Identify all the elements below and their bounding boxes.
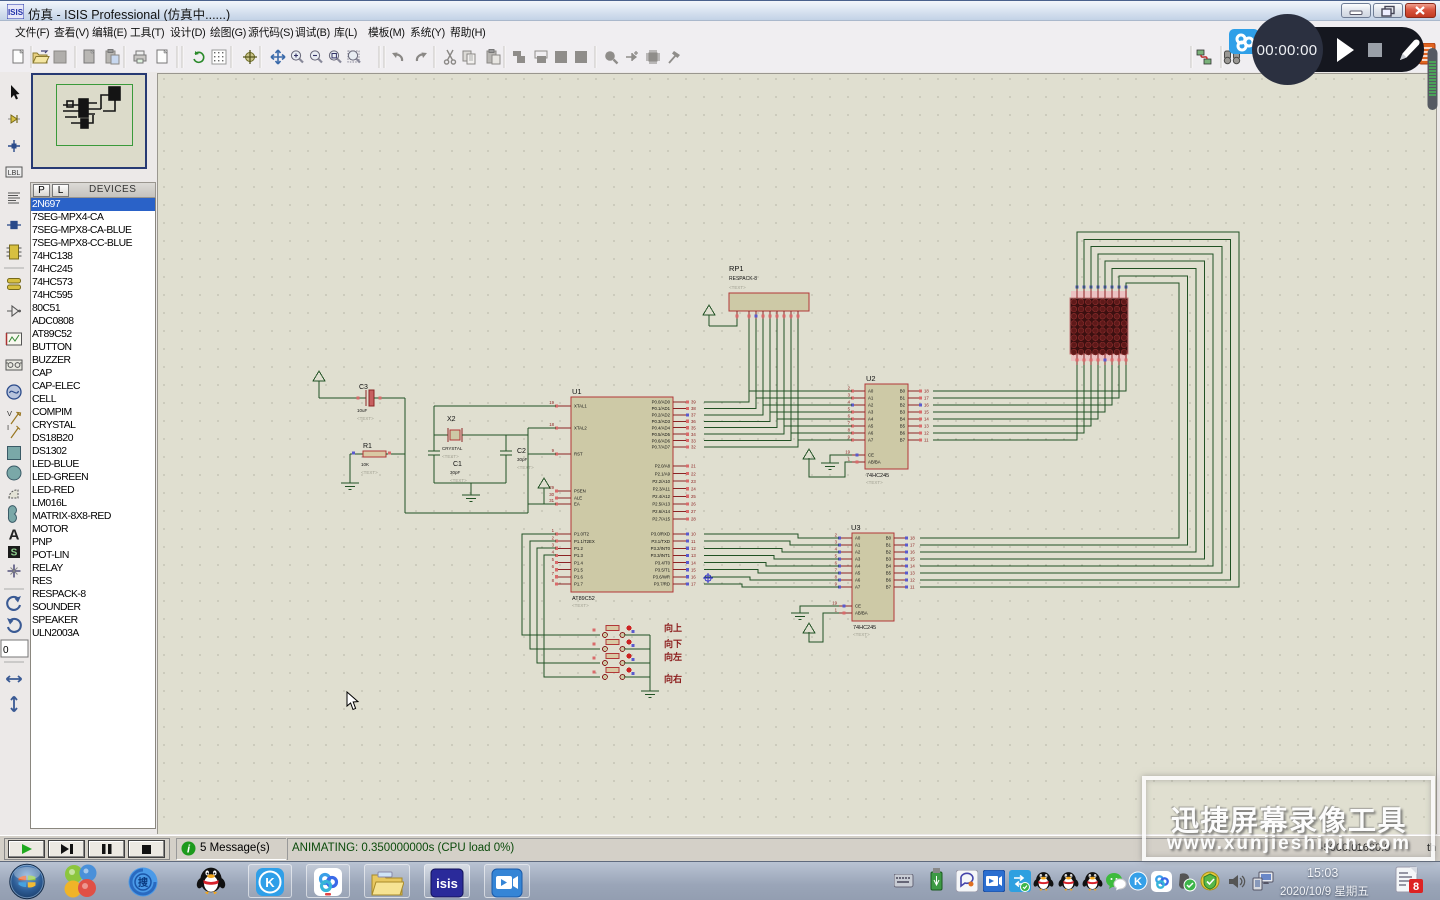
svg-text:P3.6/WR: P3.6/WR bbox=[653, 575, 670, 580]
svg-text:10uF: 10uF bbox=[357, 408, 368, 413]
svg-text:XTAL2: XTAL2 bbox=[574, 426, 587, 431]
svg-text:A6: A6 bbox=[868, 431, 874, 436]
svg-text:30pF: 30pF bbox=[517, 457, 528, 462]
svg-text:P0.6/AD6: P0.6/AD6 bbox=[652, 438, 671, 443]
svg-text:6: 6 bbox=[848, 414, 851, 419]
svg-text:AT89C52: AT89C52 bbox=[572, 596, 595, 602]
svg-text:13: 13 bbox=[924, 424, 929, 429]
svg-text:28: 28 bbox=[691, 517, 696, 522]
svg-text:21: 21 bbox=[691, 464, 696, 469]
svg-text:X2: X2 bbox=[447, 416, 456, 423]
svg-text:36: 36 bbox=[691, 419, 696, 424]
svg-text:1: 1 bbox=[835, 608, 838, 613]
svg-text:P1.2: P1.2 bbox=[574, 546, 583, 551]
svg-text:P2.6/A14: P2.6/A14 bbox=[652, 509, 670, 514]
svg-text:18: 18 bbox=[549, 422, 554, 427]
svg-text:A0: A0 bbox=[855, 536, 861, 541]
svg-text:6: 6 bbox=[552, 564, 555, 569]
svg-text:1: 1 bbox=[848, 457, 851, 462]
svg-text:A5: A5 bbox=[855, 571, 861, 576]
svg-text:<TEXT>: <TEXT> bbox=[572, 603, 589, 608]
svg-text:A3: A3 bbox=[855, 557, 861, 562]
svg-text:P1.1/T2EX: P1.1/T2EX bbox=[574, 539, 595, 544]
svg-text:P3.4/T0: P3.4/T0 bbox=[655, 560, 671, 565]
svg-text:P2.5/A13: P2.5/A13 bbox=[652, 502, 670, 507]
svg-text:3: 3 bbox=[552, 542, 555, 547]
svg-text:LBL: LBL bbox=[8, 170, 21, 177]
svg-text:搜: 搜 bbox=[138, 876, 149, 889]
svg-text:38: 38 bbox=[691, 406, 696, 411]
svg-text:<TEXT>: <TEXT> bbox=[866, 480, 883, 485]
svg-text:22: 22 bbox=[691, 471, 696, 476]
svg-text:B7: B7 bbox=[900, 438, 906, 443]
svg-text:C1: C1 bbox=[453, 461, 462, 468]
svg-text:B0: B0 bbox=[886, 536, 892, 541]
svg-text:19: 19 bbox=[845, 450, 850, 455]
svg-text:7: 7 bbox=[835, 568, 838, 573]
svg-text:P3.2/INT0: P3.2/INT0 bbox=[651, 546, 671, 551]
svg-text:P3.1/TXD: P3.1/TXD bbox=[651, 539, 670, 544]
svg-text:4: 4 bbox=[552, 550, 555, 555]
svg-text:P2.1/A9: P2.1/A9 bbox=[655, 471, 671, 476]
svg-text:<TEXT>: <TEXT> bbox=[357, 416, 374, 421]
svg-text:P3.5/T1: P3.5/T1 bbox=[655, 567, 671, 572]
svg-text:A4: A4 bbox=[868, 417, 874, 422]
svg-text:ALE: ALE bbox=[574, 496, 582, 501]
svg-text:K: K bbox=[265, 875, 275, 890]
svg-text:74HC245: 74HC245 bbox=[853, 625, 876, 631]
svg-text:A7: A7 bbox=[868, 438, 874, 443]
svg-text:2: 2 bbox=[848, 386, 851, 391]
svg-text:8: 8 bbox=[1413, 881, 1419, 893]
svg-text:16: 16 bbox=[910, 550, 915, 555]
svg-text:26: 26 bbox=[691, 502, 696, 507]
svg-text:AB/BA: AB/BA bbox=[868, 460, 881, 465]
svg-text:5: 5 bbox=[552, 557, 555, 562]
svg-text:A2: A2 bbox=[868, 403, 874, 408]
svg-text:A: A bbox=[9, 527, 20, 544]
svg-text:A4: A4 bbox=[855, 564, 861, 569]
svg-text:P2.7/A15: P2.7/A15 bbox=[652, 517, 670, 522]
svg-text:5: 5 bbox=[848, 407, 851, 412]
svg-text:30: 30 bbox=[549, 492, 554, 497]
svg-text:P2.3/A11: P2.3/A11 bbox=[653, 486, 671, 491]
svg-text:向上: 向上 bbox=[664, 622, 682, 633]
svg-text:<TEXT>: <TEXT> bbox=[853, 632, 870, 637]
svg-text:A6: A6 bbox=[855, 578, 861, 583]
svg-text:P1.3: P1.3 bbox=[574, 553, 583, 558]
svg-text:U1: U1 bbox=[572, 387, 582, 396]
svg-text:B2: B2 bbox=[886, 550, 892, 555]
svg-text:6: 6 bbox=[835, 561, 838, 566]
svg-text:B7: B7 bbox=[886, 585, 892, 590]
svg-text:12: 12 bbox=[924, 431, 929, 436]
svg-text:CE: CE bbox=[855, 604, 861, 609]
svg-text:P3.0/RXD: P3.0/RXD bbox=[651, 532, 670, 537]
svg-text:向左: 向左 bbox=[664, 651, 682, 662]
svg-text:B5: B5 bbox=[886, 571, 892, 576]
svg-text:13: 13 bbox=[691, 553, 696, 558]
svg-text:B3: B3 bbox=[900, 410, 906, 415]
svg-text:P0.3/AD3: P0.3/AD3 bbox=[652, 419, 671, 424]
svg-text:37: 37 bbox=[691, 413, 696, 418]
svg-text:10: 10 bbox=[691, 532, 696, 537]
svg-text:12: 12 bbox=[691, 546, 696, 551]
svg-text:17: 17 bbox=[910, 543, 915, 548]
svg-text:P3.3/INT1: P3.3/INT1 bbox=[651, 553, 671, 558]
svg-text:11: 11 bbox=[691, 539, 696, 544]
svg-text:A0: A0 bbox=[868, 389, 874, 394]
svg-text:CE: CE bbox=[868, 453, 874, 458]
svg-text:B2: B2 bbox=[900, 403, 906, 408]
svg-text:3: 3 bbox=[848, 393, 851, 398]
svg-text:35: 35 bbox=[691, 425, 696, 430]
svg-text:18: 18 bbox=[924, 389, 929, 394]
svg-text:RST: RST bbox=[574, 452, 583, 457]
svg-text:11: 11 bbox=[910, 585, 915, 590]
svg-text:34: 34 bbox=[691, 432, 696, 437]
svg-text:EA: EA bbox=[574, 502, 580, 507]
svg-text:C3: C3 bbox=[359, 384, 368, 391]
svg-text:4: 4 bbox=[835, 547, 838, 552]
svg-text:I: I bbox=[7, 423, 9, 432]
svg-text:15: 15 bbox=[924, 410, 929, 415]
svg-text:9: 9 bbox=[835, 582, 838, 587]
svg-text:5: 5 bbox=[835, 554, 838, 559]
svg-text:17: 17 bbox=[691, 582, 696, 587]
svg-text:RP1: RP1 bbox=[729, 264, 744, 273]
svg-text:P2.4/A12: P2.4/A12 bbox=[652, 494, 670, 499]
svg-text:<TEXT>: <TEXT> bbox=[442, 454, 459, 459]
svg-text:AB/BA: AB/BA bbox=[855, 611, 868, 616]
svg-text:4: 4 bbox=[848, 400, 851, 405]
svg-text:32: 32 bbox=[691, 445, 696, 450]
svg-text:P0.2/AD2: P0.2/AD2 bbox=[652, 413, 671, 418]
svg-text:isis: isis bbox=[436, 876, 458, 891]
svg-text:A3: A3 bbox=[868, 410, 874, 415]
svg-text:74HC245: 74HC245 bbox=[866, 473, 889, 479]
svg-text:ISIS: ISIS bbox=[8, 8, 24, 17]
svg-text:17: 17 bbox=[924, 396, 929, 401]
svg-text:RESPACK-8: RESPACK-8 bbox=[729, 276, 757, 282]
svg-text:14: 14 bbox=[910, 564, 915, 569]
svg-text:2: 2 bbox=[835, 533, 838, 538]
svg-text:B3: B3 bbox=[886, 557, 892, 562]
svg-text:A7: A7 bbox=[855, 585, 861, 590]
svg-text:8: 8 bbox=[552, 578, 555, 583]
svg-text:9: 9 bbox=[848, 435, 851, 440]
svg-text:B5: B5 bbox=[900, 424, 906, 429]
svg-text:V: V bbox=[7, 409, 12, 418]
svg-text:<TEXT>: <TEXT> bbox=[517, 465, 534, 470]
svg-text:18: 18 bbox=[910, 536, 915, 541]
svg-text:U2: U2 bbox=[866, 374, 876, 383]
svg-text:7: 7 bbox=[552, 571, 555, 576]
svg-text:S: S bbox=[11, 548, 18, 559]
svg-text:B6: B6 bbox=[886, 578, 892, 583]
svg-text:11: 11 bbox=[924, 438, 929, 443]
svg-text:P1.6: P1.6 bbox=[574, 575, 583, 580]
svg-text:K: K bbox=[1134, 876, 1142, 888]
svg-text:<TEXT>: <TEXT> bbox=[361, 470, 378, 475]
svg-text:33: 33 bbox=[691, 438, 696, 443]
svg-text:1: 1 bbox=[552, 528, 555, 533]
svg-text:8: 8 bbox=[835, 575, 838, 580]
svg-text:24: 24 bbox=[691, 486, 696, 491]
svg-text:16: 16 bbox=[691, 575, 696, 580]
svg-text:13: 13 bbox=[910, 571, 915, 576]
svg-text:向下: 向下 bbox=[664, 638, 682, 649]
svg-text:P1.5: P1.5 bbox=[574, 567, 583, 572]
svg-text:10K: 10K bbox=[361, 462, 369, 467]
svg-text:B1: B1 bbox=[900, 396, 906, 401]
svg-text:P1.4: P1.4 bbox=[574, 560, 583, 565]
svg-text:XTAL1: XTAL1 bbox=[574, 404, 587, 409]
svg-text:P2.2/A10: P2.2/A10 bbox=[652, 479, 670, 484]
svg-text:A1: A1 bbox=[868, 396, 874, 401]
svg-text:15: 15 bbox=[910, 557, 915, 562]
svg-text:<TEXT>: <TEXT> bbox=[450, 478, 467, 483]
svg-text:P1.0/T2: P1.0/T2 bbox=[574, 532, 590, 537]
svg-text:P0.0/AD0: P0.0/AD0 bbox=[652, 400, 671, 405]
svg-text:P0.5/AD5: P0.5/AD5 bbox=[652, 432, 671, 437]
svg-text:25: 25 bbox=[691, 494, 696, 499]
svg-text:B1: B1 bbox=[886, 543, 892, 548]
svg-text:A5: A5 bbox=[868, 424, 874, 429]
svg-text:19: 19 bbox=[832, 601, 837, 606]
svg-text:R1: R1 bbox=[363, 443, 372, 450]
svg-text:A2: A2 bbox=[855, 550, 861, 555]
svg-text:U3: U3 bbox=[851, 523, 861, 532]
svg-text:P3.7/RD: P3.7/RD bbox=[654, 582, 670, 587]
svg-text:C2: C2 bbox=[517, 448, 526, 455]
svg-text:向右: 向右 bbox=[664, 673, 682, 684]
svg-text:0: 0 bbox=[3, 645, 9, 656]
svg-text:B4: B4 bbox=[900, 417, 906, 422]
svg-text:<TEXT>: <TEXT> bbox=[729, 285, 746, 290]
svg-text:31: 31 bbox=[549, 498, 554, 503]
svg-text:B0: B0 bbox=[900, 389, 906, 394]
svg-text:9: 9 bbox=[552, 448, 555, 453]
svg-text:P2.0/A8: P2.0/A8 bbox=[655, 464, 671, 469]
svg-text:12: 12 bbox=[910, 578, 915, 583]
svg-text:14: 14 bbox=[691, 560, 696, 565]
svg-text:15: 15 bbox=[691, 567, 696, 572]
svg-text:CRYSTAL: CRYSTAL bbox=[442, 446, 463, 451]
svg-text:A1: A1 bbox=[855, 543, 861, 548]
svg-text:30pF: 30pF bbox=[450, 470, 461, 475]
svg-text:16: 16 bbox=[924, 403, 929, 408]
svg-text:PSEN: PSEN bbox=[574, 489, 586, 494]
svg-text:P0.7/AD7: P0.7/AD7 bbox=[652, 445, 671, 450]
svg-text:8: 8 bbox=[848, 428, 851, 433]
svg-text:B4: B4 bbox=[886, 564, 892, 569]
svg-text:14: 14 bbox=[924, 417, 929, 422]
svg-text:23: 23 bbox=[691, 479, 696, 484]
svg-text:2: 2 bbox=[552, 535, 555, 540]
svg-text:P0.4/AD4: P0.4/AD4 bbox=[652, 425, 671, 430]
svg-text:39: 39 bbox=[691, 400, 696, 405]
svg-text:B6: B6 bbox=[900, 431, 906, 436]
svg-text:3: 3 bbox=[835, 540, 838, 545]
svg-text:27: 27 bbox=[691, 509, 696, 514]
svg-text:19: 19 bbox=[549, 400, 554, 405]
svg-text:7: 7 bbox=[848, 421, 851, 426]
svg-text:P0.1/AD1: P0.1/AD1 bbox=[652, 406, 671, 411]
svg-text:P1.7: P1.7 bbox=[574, 582, 583, 587]
